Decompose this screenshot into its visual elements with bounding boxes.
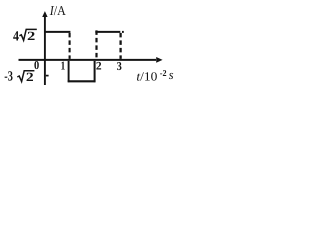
x-axis (19, 57, 163, 63)
wire: pulse2 top level t=2..3 (95, 31, 120, 33)
label 4sqrt2 (13, 29, 37, 45)
wire: pulse bottom level t=1..2 (68, 80, 96, 82)
label -3sqrt2 (4, 70, 34, 85)
svg-text:2: 2 (27, 29, 35, 43)
svg-text:4: 4 (13, 30, 19, 45)
wire: solid vertical at t=1 below axis (68, 61, 70, 82)
svg-text:0: 0 (34, 58, 39, 72)
wire: dashed vertical at t=3 above axis (119, 33, 121, 59)
svg-text:-3: -3 (4, 70, 13, 85)
tick on y-axis at -3sqrt2 level (46, 75, 49, 77)
y-axis (42, 11, 47, 85)
wire: dashed vertical at t=2 above axis (95, 30, 97, 59)
svg-text:1: 1 (61, 59, 66, 73)
svg-text:t/10: t/10 (136, 69, 157, 83)
svg-text:2: 2 (96, 61, 102, 73)
label t/10^-2 s (136, 67, 173, 84)
svg-text:s: s (169, 67, 174, 82)
wire: dashed vertical at t=1 above axis (69, 33, 71, 59)
svg-text:-2: -2 (160, 68, 167, 78)
svg-text:2: 2 (26, 70, 34, 84)
wire: pulse1 top level t=0..1 (44, 31, 70, 33)
svg-text:I/A: I/A (49, 3, 66, 18)
svg-text:3: 3 (117, 59, 122, 73)
wire: solid vertical at t=2 below axis (94, 61, 96, 82)
